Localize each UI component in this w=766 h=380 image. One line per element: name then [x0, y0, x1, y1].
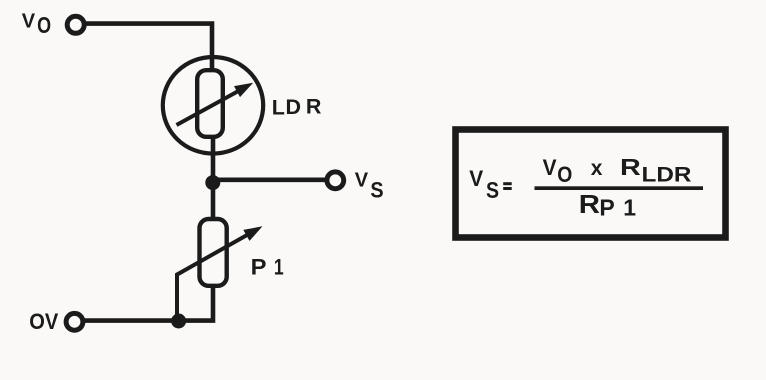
wire node to P1 — [211, 183, 216, 219]
svg-text:L: L — [272, 96, 285, 120]
label VS — [355, 170, 384, 203]
svg-text:V: V — [22, 11, 36, 33]
svg-text:O: O — [37, 13, 51, 39]
svg-text:S: S — [370, 178, 383, 202]
svg-text:1: 1 — [623, 194, 636, 220]
svg-text:R: R — [579, 189, 600, 218]
wire P1 to 0V rail — [85, 286, 214, 321]
svg-text:R: R — [620, 154, 641, 181]
svg-text:P: P — [251, 255, 267, 280]
potentiometer P1 body — [200, 219, 227, 286]
wire LDR to node — [211, 137, 216, 183]
svg-text:1: 1 — [274, 256, 284, 280]
terminal VS — [327, 172, 344, 189]
svg-text:P: P — [599, 194, 614, 220]
svg-text:V: V — [543, 155, 558, 180]
label VO — [22, 11, 51, 39]
node junction upper — [205, 175, 220, 190]
svg-text:OV: OV — [29, 309, 58, 334]
node junction lower — [171, 314, 186, 329]
svg-text:V: V — [469, 166, 484, 191]
svg-text:D: D — [286, 95, 302, 119]
LDR resistor body — [197, 70, 223, 137]
formula numerator VO x RLDR — [543, 154, 692, 188]
terminal 0V — [66, 313, 83, 330]
svg-text:O: O — [557, 163, 572, 187]
svg-text:x: x — [591, 157, 603, 180]
svg-text:LDR: LDR — [642, 163, 692, 186]
terminal VO — [67, 16, 84, 33]
wire node to VS — [213, 178, 327, 183]
formula denominator RP1 — [579, 189, 636, 220]
label LDR — [272, 95, 322, 120]
wire VO to LDR — [86, 24, 213, 68]
LDR arrow — [177, 83, 254, 125]
potentiometer P1 wiper arrow — [177, 226, 263, 318]
formula equals sign — [503, 182, 512, 190]
label P1 — [251, 255, 284, 281]
LDR circle — [163, 57, 263, 154]
formula VS — [469, 166, 499, 203]
formula box — [456, 130, 726, 238]
formula fraction bar — [535, 186, 704, 190]
svg-text:V: V — [355, 170, 369, 192]
svg-text:R: R — [306, 95, 322, 119]
svg-text:S: S — [486, 178, 499, 204]
